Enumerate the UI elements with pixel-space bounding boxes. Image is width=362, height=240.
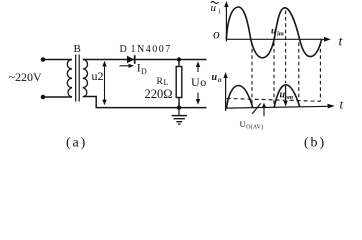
svg-text:220Ω: 220Ω [145,87,173,101]
svg-text:im: im [277,31,284,38]
svg-text:U: U [240,119,246,129]
svg-text:1N4007: 1N4007 [131,44,172,55]
svg-text:~220V: ~220V [9,70,42,84]
svg-text:(a): (a) [66,136,87,151]
svg-text:t: t [340,96,344,111]
svg-text:i: i [218,7,220,16]
svg-text:o: o [213,27,220,42]
svg-text:om: om [285,94,293,101]
svg-text:o: o [218,76,222,84]
svg-text:D: D [141,67,147,76]
svg-text:B: B [74,43,81,55]
svg-text:u: u [211,2,217,14]
svg-text:u2: u2 [92,69,104,83]
svg-text:t: t [339,35,344,50]
svg-text:O(AV): O(AV) [246,124,263,131]
svg-text:D: D [120,44,127,55]
svg-text:u: u [271,27,276,37]
svg-text:Uo: Uo [191,75,207,89]
svg-text:L: L [164,78,169,87]
svg-text:R: R [157,77,164,87]
svg-text:(b): (b) [304,136,326,151]
svg-text:u: u [212,72,218,83]
